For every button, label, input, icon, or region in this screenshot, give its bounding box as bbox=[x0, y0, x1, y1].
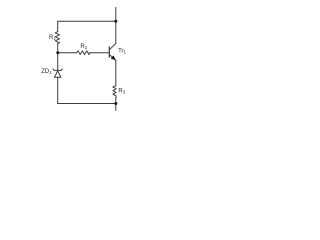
transistor Tr1 emitter lead bbox=[109, 55, 116, 61]
svg-text:R2: R2 bbox=[80, 44, 87, 50]
wire bottom horizontal bbox=[58, 103, 116, 105]
zener diode ZD1 cathode bar bbox=[53, 69, 62, 71]
wire top stub of right rail bbox=[115, 8, 117, 22]
wire bottom stub of right rail bbox=[115, 104, 117, 111]
resistor R3 bbox=[113, 86, 116, 98]
wire top horizontal bbox=[58, 20, 116, 22]
resistor R2 bbox=[77, 51, 91, 55]
resistor R1 bbox=[55, 32, 59, 44]
wire R3 to bottom node bbox=[115, 97, 117, 103]
transistor Tr1 collector lead bbox=[109, 44, 116, 50]
wire emitter vertical bbox=[115, 60, 117, 85]
wire zener to bottom corner bbox=[57, 77, 59, 103]
svg-text:ZD1: ZD1 bbox=[41, 69, 52, 75]
zener diode ZD1 anode triangle bbox=[54, 71, 61, 77]
wire node to zener bbox=[57, 53, 59, 71]
node junction base left bbox=[56, 51, 59, 54]
node junction bottom right bbox=[114, 102, 117, 105]
svg-text:R3: R3 bbox=[118, 89, 125, 95]
wire base right segment bbox=[90, 52, 109, 54]
svg-text:R1: R1 bbox=[49, 35, 56, 41]
transistor Tr1 base bar bbox=[108, 47, 110, 58]
node junction top right bbox=[114, 20, 117, 23]
transistor Tr1 emitter arrowhead bbox=[111, 56, 115, 59]
wire R1 to base node bbox=[57, 44, 59, 53]
svg-text:Tr1: Tr1 bbox=[118, 49, 126, 55]
wire collector vertical bbox=[115, 21, 117, 43]
wire base left segment bbox=[58, 52, 77, 54]
wire left rail top bbox=[57, 21, 59, 31]
